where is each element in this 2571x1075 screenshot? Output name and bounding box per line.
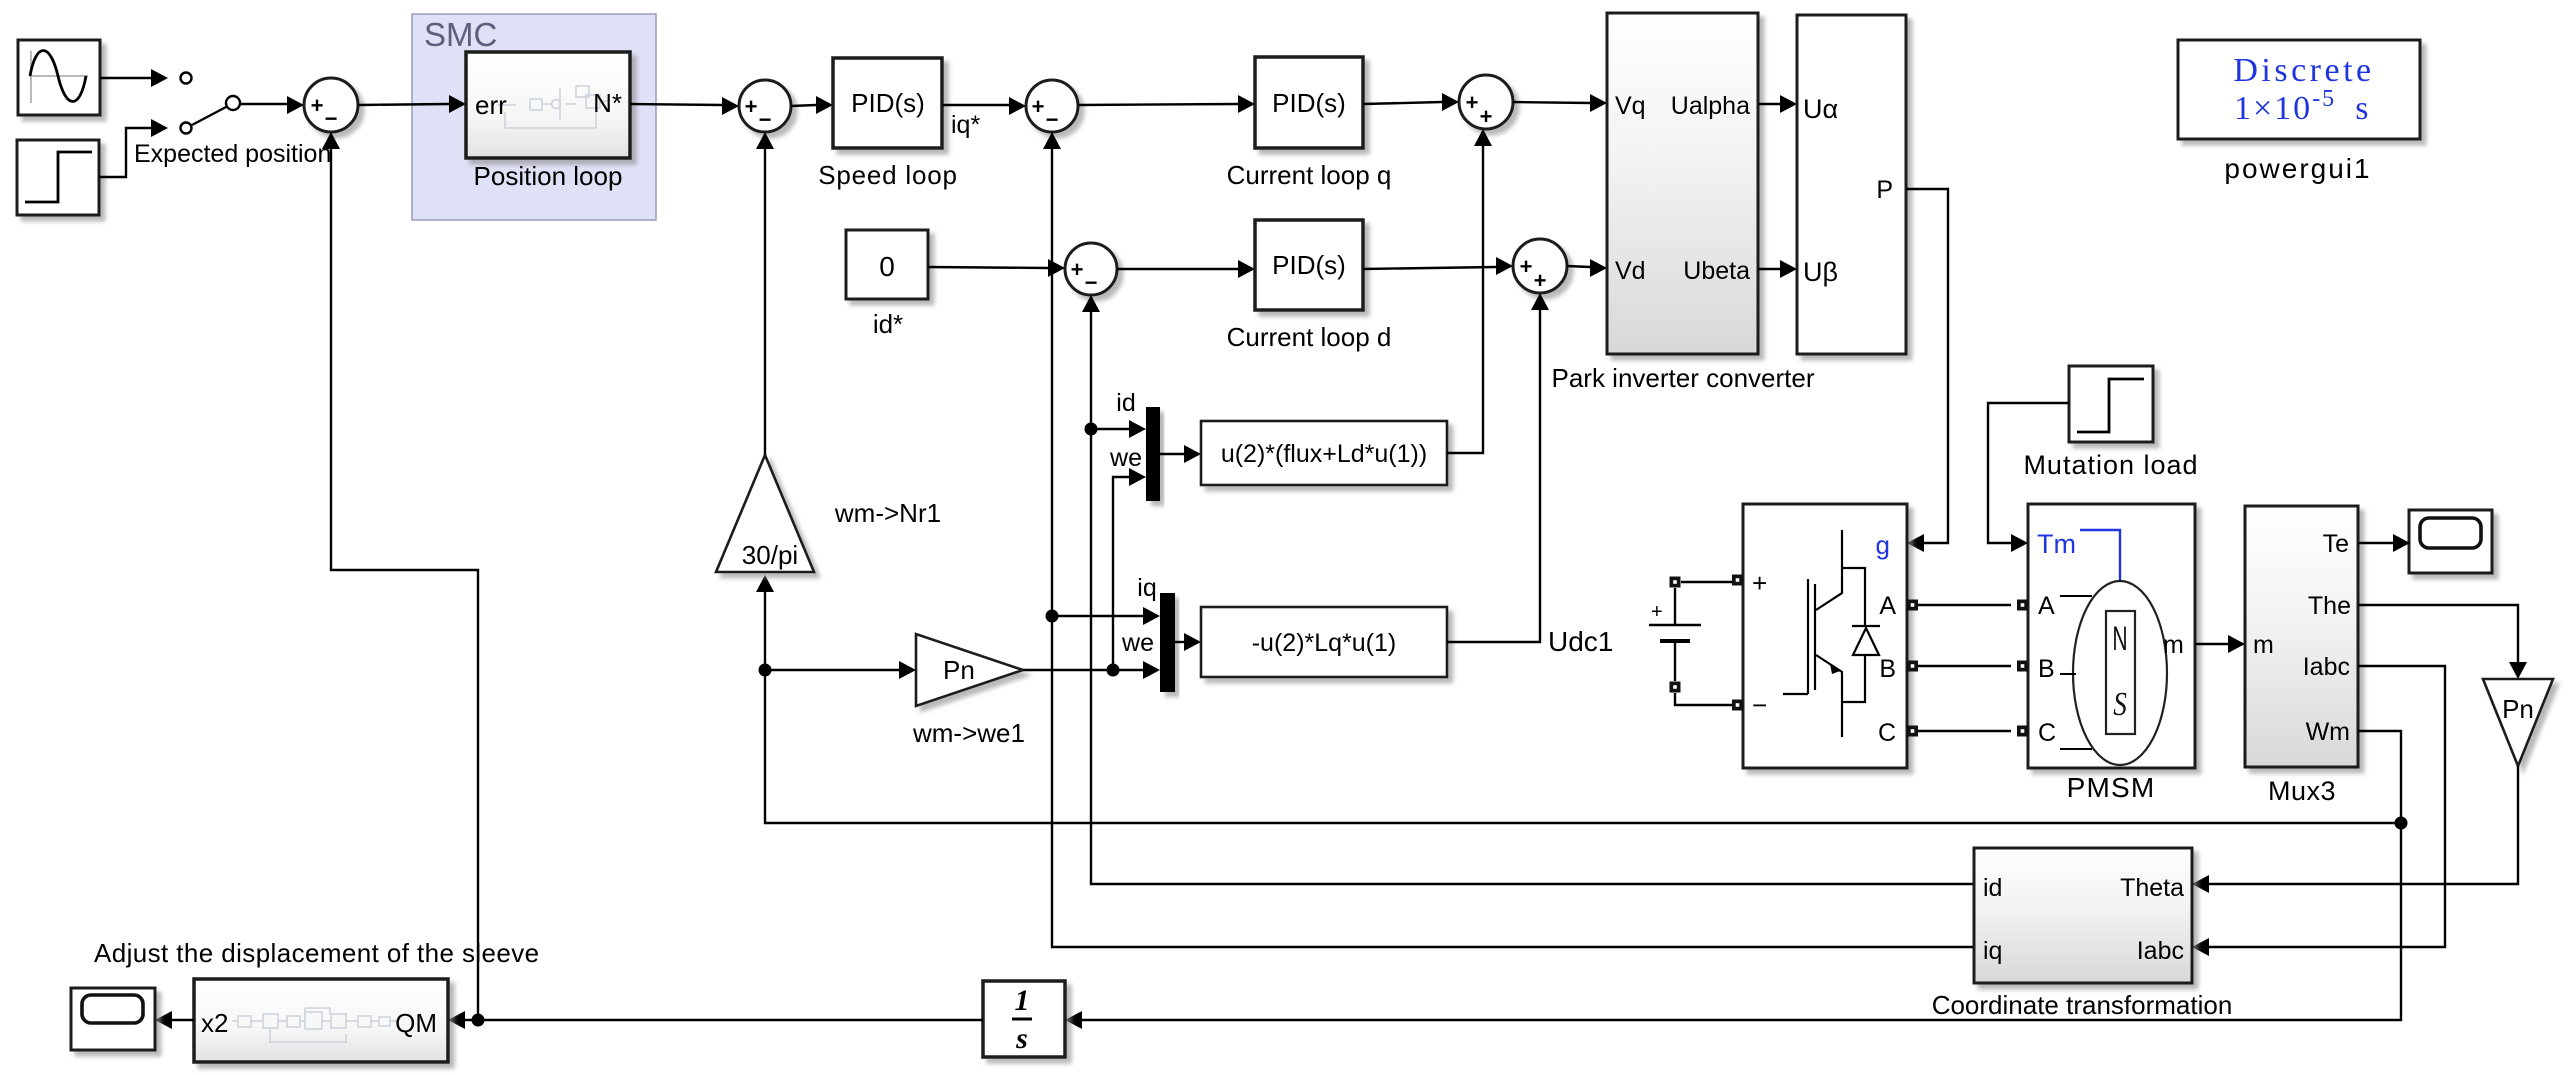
scope block Te scope	[2409, 510, 2492, 573]
manual switch	[181, 73, 241, 134]
svg-text:iq: iq	[1137, 574, 1156, 602]
svg-text:−: −	[325, 106, 338, 131]
block Current loop d PID(s)	[1255, 220, 1363, 310]
label Mutation load	[2023, 450, 2198, 480]
sum S3 iq error	[1026, 80, 1078, 132]
wire Pn to mux2 we and mux1 we	[1023, 468, 1160, 679]
svg-text:C: C	[1878, 719, 1896, 747]
wire wm to Pn gain right	[765, 661, 916, 679]
subsystem block x2 QM	[194, 979, 448, 1062]
inverter IGBT and diode icon	[1783, 530, 1880, 737]
svg-text:iq: iq	[1983, 937, 2002, 965]
PMSM port squares	[2017, 600, 2028, 737]
svg-text:Adjust the displacement of the: Adjust the displacement of the sleeve	[94, 938, 540, 968]
svg-text:+: +	[745, 94, 758, 119]
wire S4 to Park Vq	[1513, 94, 1607, 112]
wire mux1 to decoupling fn1	[1160, 445, 1201, 463]
wire Udc1 plus to inverter	[1681, 581, 1732, 583]
svg-text:Position loop: Position loop	[474, 161, 623, 191]
label id mux1	[1116, 389, 1135, 417]
label Position loop	[474, 161, 623, 191]
constant block 0 (id*)	[846, 230, 928, 299]
scope block displacement scope	[71, 988, 155, 1050]
svg-text:m: m	[2253, 631, 2274, 659]
wire switch to sum S1	[240, 96, 304, 114]
svg-text:B: B	[2038, 655, 2055, 683]
svg-text:PID(s): PID(s)	[1272, 88, 1346, 118]
svg-text:powergui1: powergui1	[2224, 153, 2371, 184]
svg-text:1: 1	[1015, 984, 1030, 1017]
svg-text:Mux3: Mux3	[2268, 776, 2336, 806]
svg-text:+: +	[1520, 254, 1533, 279]
sum S5 id error	[1065, 243, 1117, 295]
svg-text:Udc1: Udc1	[1548, 626, 1613, 657]
wire S5 to Current loop d	[1117, 260, 1255, 278]
svg-text:1×10-5 s: 1×10-5 s	[2234, 86, 2370, 127]
wire Ualpha to Ualpha-in	[1758, 95, 1797, 113]
wire x2QM to scope	[155, 1011, 194, 1029]
svg-text:Iabc: Iabc	[2137, 937, 2184, 965]
svg-text:+: +	[1534, 268, 1547, 293]
label Expected position	[134, 140, 331, 168]
svg-text:Uβ: Uβ	[1803, 257, 1838, 287]
block Speed loop PID(s)	[833, 58, 942, 148]
sum S4 plus-plus q	[1459, 75, 1513, 129]
svg-text:−: −	[1085, 270, 1098, 295]
wire Mutation load to PMSM Tm	[1988, 403, 2069, 552]
svg-text:Coordinate transformation: Coordinate transformation	[1932, 990, 2233, 1020]
svg-text:QM: QM	[395, 1008, 437, 1038]
svg-text:wm->Nr1: wm->Nr1	[834, 498, 941, 528]
svg-text:-u(2)*Lq*u(1): -u(2)*Lq*u(1)	[1252, 629, 1397, 657]
wire Ubeta to Ubeta-in	[1758, 260, 1797, 278]
label Coordinate transformation	[1932, 990, 2233, 1020]
svg-text:id*: id*	[873, 309, 903, 339]
gain Pn (down) triangle	[2483, 679, 2553, 766]
svg-text:P: P	[1876, 176, 1893, 204]
label iq*	[951, 111, 980, 139]
wire inverter B to PMSM B	[1918, 665, 2011, 667]
svg-text:Uα: Uα	[1803, 94, 1838, 124]
DC source Udc1	[1548, 577, 1701, 693]
svg-text:m: m	[2163, 631, 2184, 659]
label id*	[873, 309, 903, 339]
wire mux2 to decoupling fn2	[1175, 633, 1201, 651]
block Current loop q PID(s)	[1255, 57, 1363, 148]
block PMSM motor	[2028, 504, 2195, 768]
svg-text:g: g	[1876, 530, 1890, 560]
label Mux3	[2268, 776, 2336, 806]
svg-text:−: −	[1046, 107, 1059, 132]
svg-text:N: N	[2112, 619, 2127, 657]
wire Position loop to sum S2	[630, 97, 739, 115]
wire Speed PID to sum S3	[942, 97, 1026, 115]
label we mux1	[1109, 444, 1142, 472]
wire sine to switch	[100, 69, 168, 87]
wire step to switch	[99, 119, 168, 177]
source block Mutation load step	[2069, 366, 2153, 442]
label iq mux2	[1137, 574, 1156, 602]
svg-text:+: +	[1752, 568, 1767, 598]
mux1 bar	[1146, 407, 1160, 501]
wire Udc1 minus to inverter	[1675, 693, 1732, 705]
svg-text:SMC: SMC	[424, 16, 497, 53]
svg-text:Ualpha: Ualpha	[1671, 92, 1750, 120]
block three-phase inverter	[1743, 504, 1907, 768]
svg-text:PID(s): PID(s)	[1272, 250, 1346, 280]
svg-text:Discrete: Discrete	[2233, 52, 2374, 89]
svg-text:+: +	[1071, 257, 1084, 282]
svg-text:Park inverter converter: Park inverter converter	[1552, 363, 1815, 393]
label powergui1	[2224, 153, 2371, 184]
svg-text:wm->we1: wm->we1	[912, 718, 1025, 748]
svg-text:+: +	[1480, 104, 1493, 129]
svg-text:The: The	[2308, 592, 2351, 620]
svg-text:S: S	[2113, 685, 2127, 723]
gain 30/pi triangle	[716, 455, 814, 572]
svg-text:30/pi: 30/pi	[742, 540, 798, 570]
svg-text:Pn: Pn	[943, 655, 975, 685]
svg-text:Expected position: Expected position	[134, 140, 331, 168]
gain Pn (right) triangle	[916, 634, 1023, 706]
svg-text:A: A	[1879, 592, 1896, 620]
wire S6 to Park Vd	[1567, 259, 1607, 277]
block Mux3	[2245, 506, 2358, 767]
wire fn2 to sum S6	[1447, 293, 1549, 642]
svg-text:Vq: Vq	[1615, 92, 1646, 120]
svg-text:Mutation load: Mutation load	[2023, 450, 2198, 480]
wire Iabc to coordinate transformation	[2192, 666, 2445, 956]
svg-text:+: +	[311, 93, 324, 118]
wire inverter C to PMSM C	[1918, 730, 2011, 732]
svg-text:A: A	[2038, 592, 2055, 620]
sum S6 plus-plus d	[1513, 239, 1567, 293]
label PMSM	[2067, 772, 2156, 803]
mux2 bar	[1160, 593, 1175, 692]
source block Step (expected position)	[17, 140, 99, 215]
svg-text:Tm: Tm	[2037, 529, 2076, 559]
svg-text:C: C	[2038, 719, 2056, 747]
wire The to Pn gain	[2358, 605, 2527, 679]
label Adjust the displacement of the sleeve	[94, 938, 540, 968]
wire Current loop d to sum S6	[1363, 257, 1513, 275]
wire Current loop q to sum S4	[1363, 93, 1459, 111]
svg-text:x2: x2	[201, 1008, 228, 1038]
inverter port squares	[1732, 575, 1918, 737]
wire S2 to Speed loop PID	[791, 96, 833, 114]
wire id feedback from coordinate transformation to S5	[1082, 295, 1974, 884]
block powergui1	[2178, 40, 2420, 139]
block Coordinate transformation	[1974, 848, 2192, 983]
wire position feedback to sum S1	[322, 132, 478, 1020]
wire Pn to Theta input	[2192, 766, 2518, 893]
wire inverter A to PMSM A	[1918, 604, 2011, 606]
block Park inverter converter	[1607, 13, 1758, 354]
svg-text:err: err	[475, 90, 507, 120]
svg-text:iq*: iq*	[951, 111, 980, 139]
block fcn -u(2)*Lq*u(1)	[1201, 607, 1447, 677]
svg-text:−: −	[1752, 690, 1767, 720]
subsystem block Position loop	[466, 52, 630, 158]
svg-text:Ubeta: Ubeta	[1683, 257, 1750, 285]
wire iq feedback from coordinate transformation to S3	[1043, 132, 1974, 947]
wire 30/pi to sum S2	[756, 132, 774, 455]
label Speed loop	[818, 160, 958, 190]
svg-text:id: id	[1116, 389, 1135, 417]
block fcn u(2)*(flux+Ld*u(1))	[1201, 421, 1447, 485]
wire Te to scope	[2358, 534, 2410, 552]
label Current loop d	[1227, 322, 1392, 352]
source block Sine wave	[18, 40, 100, 115]
wire fn1 to sum S4	[1447, 129, 1492, 453]
svg-text:B: B	[1879, 655, 1896, 683]
wire wm feedback to gains	[756, 575, 2401, 823]
svg-text:id: id	[1983, 874, 2002, 902]
svg-text:Theta: Theta	[2120, 874, 2184, 902]
svg-text:−: −	[759, 107, 772, 132]
svg-text:Current loop q: Current loop q	[1227, 160, 1392, 190]
label Current loop q	[1227, 160, 1392, 190]
label we mux2	[1121, 629, 1154, 657]
wire S3 to Current loop q	[1078, 95, 1255, 113]
svg-text:+: +	[1466, 90, 1479, 115]
svg-text:s: s	[1015, 1022, 1028, 1055]
svg-text:we: we	[1109, 444, 1142, 472]
label wm->we1	[912, 718, 1025, 748]
label Park inverter converter	[1552, 363, 1815, 393]
sum S1 position error	[304, 78, 358, 132]
wire 0 to sum S5	[928, 259, 1065, 277]
svg-text:Current loop d: Current loop d	[1227, 322, 1392, 352]
svg-text:Te: Te	[2323, 530, 2349, 558]
sum S2 speed error	[739, 80, 791, 132]
SMC region (area box)	[412, 14, 656, 220]
wire PMSM m to Mux3	[2195, 635, 2245, 653]
svg-text:+: +	[1032, 94, 1045, 119]
svg-text:Vd: Vd	[1615, 257, 1646, 285]
svg-text:Speed loop: Speed loop	[818, 160, 958, 190]
svg-text:Wm: Wm	[2306, 718, 2350, 746]
svg-text:PID(s): PID(s)	[851, 88, 925, 118]
svg-text:0: 0	[879, 251, 895, 282]
block inverter bridge input U-alpha-beta	[1797, 15, 1906, 354]
label wm->Nr1	[834, 498, 941, 528]
svg-text:u(2)*(flux+Ld*u(1)): u(2)*(flux+Ld*u(1))	[1221, 440, 1427, 468]
svg-text:Iabc: Iabc	[2303, 653, 2350, 681]
block integrator 1/s	[983, 981, 1065, 1057]
svg-text:+: +	[1651, 601, 1663, 623]
svg-text:PMSM: PMSM	[2067, 772, 2156, 803]
wire S1 to Position loop	[358, 95, 466, 113]
wire Wm to integrator and feedback	[1065, 731, 2408, 1029]
svg-text:we: we	[1121, 629, 1154, 657]
svg-text:N*: N*	[593, 88, 622, 118]
wire P to inverter g	[1906, 189, 1948, 552]
wire 1/s to x2QM subsystem	[448, 1011, 983, 1029]
svg-text:Pn: Pn	[2502, 694, 2534, 724]
